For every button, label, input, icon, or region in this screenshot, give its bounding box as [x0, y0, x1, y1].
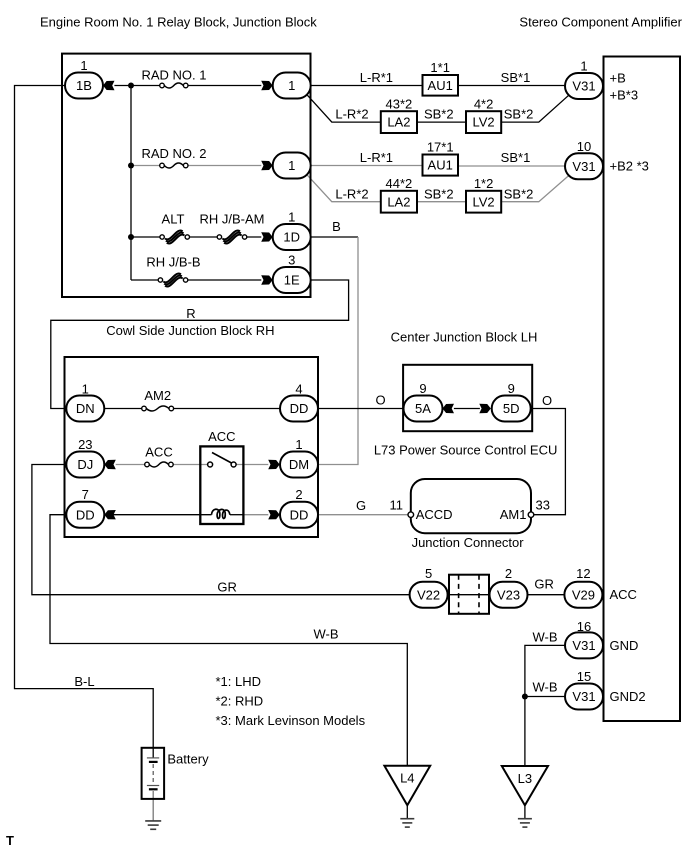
svg-text:AU1: AU1 [428, 78, 453, 93]
svg-text:SB*2: SB*2 [424, 186, 454, 201]
svg-text:ACC: ACC [145, 444, 172, 459]
svg-text:ACC: ACC [610, 587, 637, 602]
svg-text:LV2: LV2 [473, 115, 495, 130]
svg-text:5: 5 [425, 566, 432, 581]
svg-text:ALT: ALT [162, 211, 185, 226]
svg-text:AM2: AM2 [144, 388, 171, 403]
svg-text:W-B: W-B [532, 680, 557, 695]
svg-text:4: 4 [295, 382, 302, 397]
svg-text:L4: L4 [400, 771, 414, 786]
svg-text:V31: V31 [572, 159, 595, 174]
svg-text:33: 33 [536, 498, 550, 513]
svg-text:5A: 5A [415, 401, 431, 416]
svg-text:15: 15 [577, 669, 591, 684]
svg-text:9: 9 [419, 381, 426, 396]
svg-text:DD: DD [290, 507, 309, 522]
svg-text:1: 1 [295, 437, 302, 452]
svg-text:W-B: W-B [313, 627, 338, 642]
svg-text:AM1: AM1 [500, 507, 527, 522]
svg-text:4*2: 4*2 [474, 96, 494, 111]
svg-text:17*1: 17*1 [427, 140, 454, 155]
svg-text:AU1: AU1 [428, 158, 453, 173]
svg-text:L-R*1: L-R*1 [360, 70, 393, 85]
svg-text:RAD NO. 1: RAD NO. 1 [141, 68, 206, 83]
svg-text:V29: V29 [572, 587, 595, 602]
svg-text:*1: LHD: *1: LHD [216, 674, 262, 689]
svg-text:Engine Room No. 1 Relay Block,: Engine Room No. 1 Relay Block, Junction … [40, 15, 317, 30]
svg-text:3: 3 [288, 253, 295, 268]
svg-text:1E: 1E [284, 273, 300, 288]
svg-text:LA2: LA2 [387, 194, 410, 209]
svg-text:1: 1 [288, 78, 295, 93]
svg-text:L3: L3 [518, 771, 532, 786]
svg-text:*2: RHD: *2: RHD [216, 694, 264, 709]
svg-text:1: 1 [80, 58, 87, 73]
svg-text:V31: V31 [572, 79, 595, 94]
svg-text:ACCD: ACCD [416, 507, 453, 522]
svg-text:L73 Power Source Control ECU: L73 Power Source Control ECU [374, 443, 558, 458]
svg-text:1*2: 1*2 [474, 176, 494, 191]
svg-text:Stereo Component Amplifier: Stereo Component Amplifier [519, 15, 682, 30]
svg-text:DD: DD [290, 401, 309, 416]
svg-text:1: 1 [288, 158, 295, 173]
svg-text:V22: V22 [417, 587, 440, 602]
svg-text:SB*2: SB*2 [424, 107, 454, 122]
svg-text:+B: +B [610, 70, 626, 85]
svg-text:RAD NO. 2: RAD NO. 2 [141, 146, 206, 161]
svg-text:1: 1 [82, 382, 89, 397]
svg-text:5D: 5D [503, 401, 520, 416]
svg-text:SB*2: SB*2 [504, 186, 534, 201]
svg-text:L-R*1: L-R*1 [360, 150, 393, 165]
svg-text:V23: V23 [497, 587, 520, 602]
svg-text:SB*1: SB*1 [501, 150, 531, 165]
svg-text:1B: 1B [76, 78, 92, 93]
svg-text:G: G [356, 498, 366, 513]
svg-text:R: R [186, 306, 195, 321]
svg-text:Cowl Side Junction Block RH: Cowl Side Junction Block RH [106, 323, 274, 338]
svg-text:GR: GR [217, 580, 237, 595]
svg-text:DM: DM [289, 457, 309, 472]
svg-text:16: 16 [577, 619, 591, 634]
svg-text:11: 11 [390, 498, 404, 513]
svg-text:V31: V31 [572, 689, 595, 704]
svg-text:43*2: 43*2 [386, 96, 413, 111]
svg-text:L-R*2: L-R*2 [335, 107, 368, 122]
svg-text:12: 12 [576, 566, 590, 581]
svg-text:Center Junction Block LH: Center Junction Block LH [391, 330, 538, 345]
svg-text:O: O [376, 393, 386, 408]
svg-text:1: 1 [288, 210, 295, 225]
svg-text:SB*2: SB*2 [504, 107, 534, 122]
svg-text:ACC: ACC [208, 429, 235, 444]
svg-text:Junction Connector: Junction Connector [412, 535, 525, 550]
svg-text:+B*3: +B*3 [610, 87, 639, 102]
svg-text:RH J/B-B: RH J/B-B [146, 254, 200, 269]
svg-text:GR: GR [534, 577, 554, 592]
svg-text:7: 7 [82, 487, 89, 502]
svg-text:T: T [6, 833, 14, 848]
svg-text:44*2: 44*2 [386, 176, 413, 191]
svg-text:DN: DN [76, 401, 95, 416]
svg-text:*3: Mark Levinson Models: *3: Mark Levinson Models [216, 713, 366, 728]
svg-text:2: 2 [295, 487, 302, 502]
svg-text:B: B [332, 219, 341, 234]
svg-text:L-R*2: L-R*2 [335, 186, 368, 201]
svg-text:W-B: W-B [532, 629, 557, 644]
svg-text:DJ: DJ [77, 457, 93, 472]
svg-text:GND: GND [610, 638, 639, 653]
svg-text:+B2 *3: +B2 *3 [610, 159, 649, 174]
svg-text:2: 2 [505, 566, 512, 581]
svg-text:O: O [542, 393, 552, 408]
svg-text:LA2: LA2 [387, 115, 410, 130]
svg-text:GND2: GND2 [610, 689, 646, 704]
svg-text:Battery: Battery [167, 751, 209, 766]
svg-text:10: 10 [577, 139, 591, 154]
svg-text:B-L: B-L [74, 674, 94, 689]
svg-text:DD: DD [76, 507, 95, 522]
svg-text:1: 1 [580, 59, 587, 74]
svg-text:LV2: LV2 [473, 194, 495, 209]
svg-text:9: 9 [508, 381, 515, 396]
svg-text:1*1: 1*1 [430, 60, 450, 75]
svg-text:1D: 1D [283, 230, 300, 245]
svg-text:RH J/B-AM: RH J/B-AM [200, 211, 265, 226]
svg-text:23: 23 [78, 437, 92, 452]
svg-text:V31: V31 [572, 638, 595, 653]
svg-text:SB*1: SB*1 [501, 70, 531, 85]
